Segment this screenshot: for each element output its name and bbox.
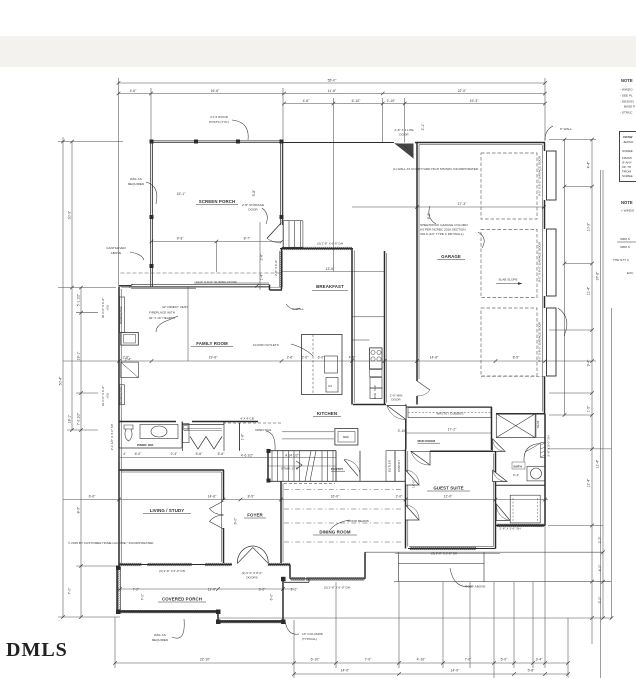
svg-text:11'-4": 11'-4" <box>596 459 600 468</box>
window hatches (drawn as tick rows) <box>119 247 544 580</box>
svg-text:GARAGE: GARAGE <box>441 254 461 259</box>
full-width reference dim line <box>63 360 596 362</box>
WIC with X <box>496 414 535 438</box>
svg-text:DOOR: DOOR <box>399 133 409 137</box>
svg-text:2'-8" STORAGE: 2'-8" STORAGE <box>242 203 264 207</box>
svg-text:16'-6": 16'-6" <box>211 89 220 93</box>
svg-text:A 14 1/2": A 14 1/2" <box>285 454 299 458</box>
svg-text:BOOKCASE: BOOKCASE <box>119 386 123 403</box>
svg-text:SCREE: SCREE <box>622 149 633 153</box>
svg-text:BATH: BATH <box>514 465 523 469</box>
svg-text:DMLS: DMLS <box>6 639 68 661</box>
svg-text:42" DIRECT VENT: 42" DIRECT VENT <box>162 305 188 309</box>
svg-text:AS PER NCRBC 2018 SECTION: AS PER NCRBC 2018 SECTION <box>420 228 466 232</box>
svg-text:4' X 4' CB: 4' X 4' CB <box>240 417 254 421</box>
svg-text:3'-2": 3'-2" <box>259 588 267 592</box>
foyer french doors (living) <box>210 501 224 529</box>
svg-text:2'-10": 2'-10" <box>387 99 396 103</box>
svg-text:5'-6": 5'-6" <box>196 452 204 456</box>
svg-text:17'-2": 17'-2" <box>448 428 457 432</box>
dashed: dining wood beams <box>284 490 403 543</box>
svg-text:9'-0": 9'-0" <box>234 517 238 525</box>
range chase <box>370 348 383 369</box>
right dim verticals <box>564 139 566 415</box>
svg-text:4'-0": 4'-0" <box>598 564 602 572</box>
living room <box>119 469 224 471</box>
svg-text:6'-10": 6'-10" <box>311 658 320 662</box>
svg-text:18'-1": 18'-1" <box>68 414 72 423</box>
svg-text:(3) 2'-8" X 6'-0" DH: (3) 2'-8" X 6'-0" DH <box>324 586 350 590</box>
vanity with sink <box>527 466 545 481</box>
svg-text:14'-6": 14'-6" <box>208 495 217 499</box>
svg-text:4'-6": 4'-6" <box>349 356 357 360</box>
stairs block <box>267 449 269 481</box>
svg-text:NOTE: NOTE <box>621 200 633 205</box>
svg-text:FIREPLACE WITH: FIREPLACE WITH <box>149 311 175 315</box>
svg-text:2'-8" X 5'-0" SH: 2'-8" X 5'-0" SH <box>547 435 551 456</box>
svg-text:IF ANY: IF ANY <box>622 161 632 165</box>
svg-text:9'-0" X 8'-0" GARAGE DOOR: 9'-0" X 8'-0" GARAGE DOOR <box>538 321 542 362</box>
svg-text:18'-1": 18'-1" <box>77 351 81 360</box>
bottom extension verticals <box>114 617 116 668</box>
top dim lines <box>119 82 546 84</box>
pantry door <box>344 460 360 477</box>
svg-text:2'-6": 2'-6" <box>287 356 295 360</box>
hall lines right of stairs <box>282 431 334 433</box>
svg-text:4'-6": 4'-6" <box>130 89 138 93</box>
svg-text:BASE P: BASE P <box>624 105 635 109</box>
svg-text:14'-0" X 8'-0" SLIDING DOOR: 14'-0" X 8'-0" SLIDING DOOR <box>195 280 237 284</box>
garage entry door arc <box>417 381 430 396</box>
dining south windows <box>290 578 365 580</box>
vanity <box>140 425 178 439</box>
svg-text:SCREEN PORCH: SCREEN PORCH <box>199 199 236 204</box>
svg-text:6'-10": 6'-10" <box>352 99 361 103</box>
foyer right wall <box>280 481 282 563</box>
guest suite dim line <box>63 499 548 501</box>
svg-text:CRAW: CRAW <box>623 135 633 139</box>
roof above guest suite (dashed-ish outline) <box>395 552 500 582</box>
svg-text:SCREE: SCREE <box>622 174 633 178</box>
breakfast north windows <box>280 248 353 250</box>
svg-text:46 2'-0" X 6'-9": 46 2'-0" X 6'-9" <box>101 298 105 318</box>
svg-text:302.6 (1/2" TYPE X DRYWALL): 302.6 (1/2" TYPE X DRYWALL) <box>420 232 464 236</box>
porch internal dim <box>152 241 282 243</box>
svg-text:10" COLUMNS: 10" COLUMNS <box>302 632 323 636</box>
svg-text:7'-0": 7'-0" <box>141 593 145 601</box>
svg-text:2'-0": 2'-0" <box>396 495 404 499</box>
svg-text:PANTRY: PANTRY <box>397 460 401 472</box>
svg-text:OF TH: OF TH <box>622 165 631 169</box>
svg-text:1'-5": 1'-5" <box>587 405 591 413</box>
svg-text:37'-6": 37'-6" <box>596 271 600 280</box>
gray band across top <box>0 36 636 67</box>
screen porch outline <box>152 140 282 142</box>
butler pantry boxes <box>386 451 395 482</box>
garage left wall <box>416 143 418 382</box>
svg-text:STAIR: 17 R: STAIR: 17 R <box>281 467 299 471</box>
svg-text:(2) 6'-0" X 8'-0": (2) 6'-0" X 8'-0" <box>242 571 263 575</box>
svg-text:KITCHEN: KITCHEN <box>317 411 337 416</box>
svg-text:W/D: W/D <box>373 392 377 399</box>
svg-text:9'-3": 9'-3" <box>177 237 185 241</box>
svg-text:THE NTT C: THE NTT C <box>613 258 630 262</box>
porch storage door swing <box>267 223 282 239</box>
svg-text:PWDR. RM.: PWDR. RM. <box>137 443 154 447</box>
svg-text:7'-2": 7'-2" <box>133 588 141 592</box>
svg-text:WOOD BEAMS: WOOD BEAMS <box>347 519 369 523</box>
svg-text:FAMILY ROOM: FAMILY ROOM <box>196 341 228 346</box>
svg-text:6'-0": 6'-0" <box>318 356 326 360</box>
svg-text:3000 S: 3000 S <box>620 237 630 241</box>
mudroom entry door from garage hall <box>387 406 406 420</box>
svg-text:2'-0": 2'-0" <box>302 356 310 360</box>
mud to hall door <box>411 451 430 465</box>
svg-text:9'-0" X 8'-0" GARAGE DOOR: 9'-0" X 8'-0" GARAGE DOOR <box>538 241 542 282</box>
svg-text:4'-6 1/2": 4'-6 1/2" <box>241 454 254 458</box>
dashed: garage slab rectangles <box>481 153 545 376</box>
svg-text:SHEETROCK GARAGE COLUMN: SHEETROCK GARAGE COLUMN <box>420 223 468 227</box>
bath label box <box>512 462 525 469</box>
svg-text:6" WALL: 6" WALL <box>560 127 572 131</box>
svg-text:9'-4": 9'-4" <box>587 359 591 367</box>
svg-text:2'-6": 2'-6" <box>260 253 264 261</box>
svg-text:3'-4": 3'-4" <box>536 658 544 662</box>
inner parallel lines for double-wall appearance <box>121 145 542 565</box>
svg-text:GUEST SUITE: GUEST SUITE <box>433 486 463 491</box>
svg-text:2'-8" X 4 LITE: 2'-8" X 4 LITE <box>394 128 413 132</box>
svg-text:DOORS: DOORS <box>246 576 257 580</box>
hall doors right side <box>493 439 505 452</box>
svg-text:CANTILEVER: CANTILEVER <box>106 246 126 250</box>
svg-text:RAIL AS: RAIL AS <box>130 177 142 181</box>
covered porch <box>116 567 118 612</box>
left dim verticals <box>62 137 64 617</box>
family south wall <box>119 421 176 423</box>
svg-text:2'-7": 2'-7" <box>598 536 602 544</box>
svg-text:A3: A3 <box>328 384 332 388</box>
svg-text:OPEN RAIL: OPEN RAIL <box>255 428 272 432</box>
sliding door (double thin lines) <box>131 283 269 288</box>
svg-text:6'-0": 6'-0" <box>135 452 143 456</box>
svg-text:5'-8": 5'-8" <box>528 669 536 673</box>
svg-text:7'-0": 7'-0" <box>68 587 72 595</box>
svg-text:22'-0": 22'-0" <box>458 89 467 93</box>
svg-text:WASTE / CUBBIES: WASTE / CUBBIES <box>436 412 463 416</box>
svg-text:11'-6": 11'-6" <box>328 89 337 93</box>
svg-text:9'-8": 9'-8" <box>252 189 256 197</box>
dining step <box>284 581 309 583</box>
mud room walls <box>405 405 407 450</box>
W/D vac closet <box>370 378 382 389</box>
svg-text:DOOR: DOOR <box>248 208 258 212</box>
svg-text:- STRUC: - STRUC <box>620 111 633 115</box>
svg-text:3000 S: 3000 S <box>620 245 630 249</box>
svg-text:1'-4": 1'-4" <box>260 273 264 281</box>
svg-text:2'-0 1/2" X 4'-0" SH: 2'-0 1/2" X 4'-0" SH <box>110 424 114 450</box>
svg-text:6'-4": 6'-4" <box>513 473 519 477</box>
svg-text:7'-0": 7'-0" <box>465 658 473 662</box>
svg-text:2'-4": 2'-4" <box>125 358 133 362</box>
svg-text:ABOVE: ABOVE <box>111 251 122 255</box>
svg-text:8'-7": 8'-7" <box>244 237 252 241</box>
svg-text:(3) 2'-8" X 6'-0" DH: (3) 2'-8" X 6'-0" DH <box>317 242 343 246</box>
guest suite <box>495 451 497 548</box>
svg-text:16'-0": 16'-0" <box>331 495 340 499</box>
svg-text:RAIL AS: RAIL AS <box>154 633 166 637</box>
svg-text:- WINDO: - WINDO <box>620 88 633 92</box>
svg-text:1'-2": 1'-2" <box>291 588 299 592</box>
svg-text:BUTLER: BUTLER <box>388 459 392 472</box>
svg-text:+09: +09 <box>106 393 110 399</box>
svg-text:LIVING / STUDY: LIVING / STUDY <box>150 508 185 513</box>
sliding door wall top of family room <box>119 285 131 287</box>
svg-text:14'-6": 14'-6" <box>430 356 439 360</box>
svg-text:MUD ROOM: MUD ROOM <box>418 439 436 443</box>
svg-text:46 2'-0" X 6'-9": 46 2'-0" X 6'-9" <box>101 386 105 406</box>
bottom dim lines <box>115 662 568 664</box>
svg-text:30'-3": 30'-3" <box>68 210 72 219</box>
svg-text:17'-3": 17'-3" <box>458 202 467 206</box>
svg-text:+ WINDO: + WINDO <box>621 209 635 213</box>
top extension verticals <box>118 78 120 287</box>
svg-text:- DESIGN: - DESIGN <box>620 100 634 104</box>
svg-text:19'-3": 19'-3" <box>470 99 479 103</box>
house left wall <box>118 287 120 567</box>
svg-text:4 X 6 WOOD: 4 X 6 WOOD <box>210 115 229 119</box>
svg-text:REQUIRED: REQUIRED <box>128 182 145 186</box>
svg-text:22'-10": 22'-10" <box>200 658 211 662</box>
svg-text:3'-10": 3'-10" <box>398 429 407 433</box>
svg-text:SEAT: SEAT <box>536 420 540 428</box>
guest to closet door <box>406 505 420 520</box>
door swing arcs <box>387 406 510 521</box>
house top wall courtyard <box>282 142 395 144</box>
svg-text:SLAB SLOPE: SLAB SLOPE <box>498 278 517 282</box>
covered porch rail walls (hatched) <box>118 567 281 623</box>
svg-text:FROM: FROM <box>622 170 632 174</box>
svg-text:4'-10": 4'-10" <box>417 658 426 662</box>
kitchen / breakfast east wall <box>351 249 353 405</box>
powder dim line <box>119 448 336 462</box>
right lower extensions <box>548 448 611 450</box>
guest closet <box>510 495 540 523</box>
svg-text:8'-5": 8'-5" <box>248 495 256 499</box>
svg-text:4'-4": 4'-4" <box>587 161 591 169</box>
guest suite door <box>406 470 420 485</box>
svg-text:FLOOR OUTLETS: FLOOR OUTLETS <box>253 343 279 347</box>
svg-text:(3) 2'-8" X 6'-0" DH: (3) 2'-8" X 6'-0" DH <box>159 569 185 573</box>
svg-text:16'-0": 16'-0" <box>412 480 416 488</box>
svg-text:DOOR: DOOR <box>391 398 401 402</box>
garage dim <box>352 206 544 208</box>
svg-text:REF: REF <box>343 435 349 439</box>
tick marks on dims <box>61 81 613 676</box>
svg-text:7'-2 1/2": 7'-2 1/2" <box>77 412 81 425</box>
garage doors on right wall <box>547 151 557 376</box>
svg-text:DINING ROOM: DINING ROOM <box>319 530 351 535</box>
svg-text:(1) WALL AT COURTYARD HIGH SHO: (1) WALL AT COURTYARD HIGH SHOWN, INCORP… <box>393 167 479 171</box>
pantry door diagonal <box>344 460 358 477</box>
svg-text:NOTE: NOTE <box>621 78 633 83</box>
svg-text:36" X 16" HEARTH: 36" X 16" HEARTH <box>149 316 175 320</box>
island <box>302 335 343 395</box>
svg-text:2'-8" X 3'-6" SH: 2'-8" X 3'-6" SH <box>499 527 520 531</box>
svg-text:19'-6": 19'-6" <box>209 356 218 360</box>
garage right wall <box>544 143 546 152</box>
shower <box>524 444 540 462</box>
svg-text:© 2015 BY CUSTOMER HOME LACOBI: © 2015 BY CUSTOMER HOME LACOBIE," INCORP… <box>68 541 154 545</box>
svg-text:15'-1": 15'-1" <box>177 192 186 196</box>
svg-text:50'-4": 50'-4" <box>59 376 63 385</box>
svg-text:VAC: VAC <box>373 384 377 391</box>
REF <box>335 429 358 446</box>
svg-text:9'-0" X 8'-0" GARAGE DOOR: 9'-0" X 8'-0" GARAGE DOOR <box>538 155 542 196</box>
dashed below stairs <box>284 483 335 485</box>
svg-text:4': 4' <box>123 452 126 456</box>
svg-text:7'-0": 7'-0" <box>365 658 373 662</box>
counter line kitchen top <box>352 316 385 318</box>
svg-text:(TYPICAL): (TYPICAL) <box>302 637 317 641</box>
svg-text:2'-8" X 6'-9": 2'-8" X 6'-9" <box>274 260 278 276</box>
svg-text:8'-5": 8'-5" <box>513 356 521 360</box>
svg-text:4'-6": 4'-6" <box>303 99 311 103</box>
svg-text:+09: +09 <box>106 305 110 311</box>
svg-text:2'-1": 2'-1" <box>421 123 425 131</box>
svg-text:10'-3": 10'-3" <box>587 222 591 231</box>
svg-text:13'-6": 13'-6" <box>326 267 335 271</box>
toilet <box>124 425 133 441</box>
svg-text:EXC: EXC <box>627 271 634 275</box>
front double doors <box>237 546 268 564</box>
coat closet bifold <box>190 437 222 450</box>
svg-text:11'-4": 11'-4" <box>587 286 591 295</box>
svg-text:COVERED PORCH: COVERED PORCH <box>162 597 202 602</box>
svg-text:6'-0": 6'-0" <box>89 495 97 499</box>
svg-text:14'-0": 14'-0" <box>451 669 460 673</box>
svg-text:11'-0": 11'-0" <box>208 588 217 592</box>
small stairs at porch SE <box>282 220 303 222</box>
dashed: cantilever above <box>121 272 282 274</box>
bath strip east <box>496 413 545 415</box>
svg-text:14'-0": 14'-0" <box>341 669 350 673</box>
svg-text:5'-1 1/2": 5'-1 1/2" <box>77 293 81 306</box>
svg-text:FRAMI: FRAMI <box>622 156 632 160</box>
svg-text:- SEE PL: - SEE PL <box>620 94 633 98</box>
svg-text:PANTRY: PANTRY <box>331 467 344 471</box>
svg-text:5'-6": 5'-6" <box>218 452 226 456</box>
svg-text:POSTS (TYP.): POSTS (TYP.) <box>209 120 229 124</box>
courtyard gate door <box>395 144 414 159</box>
svg-text:JERSO: JERSO <box>623 140 634 144</box>
svg-text:6'-0": 6'-0" <box>270 593 274 601</box>
svg-text:2'-4": 2'-4" <box>171 452 179 456</box>
living south windows <box>119 564 232 566</box>
svg-text:55'-0": 55'-0" <box>328 79 337 83</box>
svg-text:FOYER: FOYER <box>247 513 263 518</box>
svg-text:1'-6": 1'-6" <box>241 433 245 441</box>
svg-text:BOOKCASE: BOOKCASE <box>119 306 123 323</box>
screen porch posts <box>116 140 286 625</box>
svg-text:BREAKFAST: BREAKFAST <box>316 284 344 289</box>
svg-text:12'-0": 12'-0" <box>444 495 453 499</box>
svg-text:12'-4": 12'-4" <box>587 478 591 487</box>
svg-text:5'-0": 5'-0" <box>501 658 509 662</box>
svg-text:3'-0": 3'-0" <box>598 596 602 604</box>
svg-text:REQUIRED: REQUIRED <box>152 638 169 642</box>
svg-text:(3) 2'-8" X 3'-6" SH: (3) 2'-8" X 3'-6" SH <box>431 552 457 556</box>
svg-text:8'-5": 8'-5" <box>77 506 81 514</box>
